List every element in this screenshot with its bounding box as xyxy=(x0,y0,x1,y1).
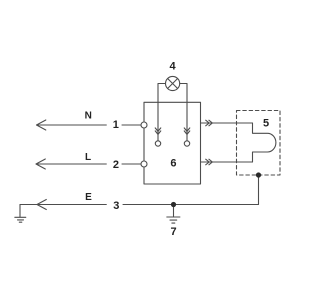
wire E line xyxy=(20,204,259,206)
svg-text:E: E xyxy=(85,192,92,203)
wire N line xyxy=(37,124,142,126)
junction dot at dashed box xyxy=(256,172,261,177)
svg-text:4: 4 xyxy=(169,61,176,73)
lamp wires xyxy=(158,84,187,141)
lamp X1 xyxy=(166,76,180,90)
dashed enclosure 5 xyxy=(237,111,281,176)
wire L line xyxy=(36,163,141,165)
svg-text:N: N xyxy=(85,111,92,122)
terminal 2 circle xyxy=(141,161,147,167)
svg-text:2: 2 xyxy=(113,159,119,171)
enclosure box 6 xyxy=(144,102,201,184)
junction dot at ground 7 xyxy=(171,202,176,207)
ground 7 xyxy=(167,205,180,224)
svg-text:3: 3 xyxy=(113,200,119,212)
actuator arrow left xyxy=(155,128,161,134)
actuator arrow right xyxy=(184,128,190,134)
arrow head L xyxy=(36,159,45,169)
wire box to element bottom xyxy=(201,161,253,163)
arrow head N xyxy=(37,120,46,130)
svg-text:L: L xyxy=(85,152,91,163)
terminal 1 circle xyxy=(141,122,147,128)
arrow head E xyxy=(37,200,46,210)
chevrons bottom xyxy=(206,159,213,165)
svg-text:7: 7 xyxy=(170,226,176,238)
svg-text:1: 1 xyxy=(113,119,119,131)
svg-text:5: 5 xyxy=(263,117,269,129)
wire box to element top xyxy=(201,122,253,124)
wire from dashed box to E line xyxy=(258,175,260,205)
contact circle right xyxy=(184,141,189,146)
heating element 5 outline xyxy=(253,123,276,162)
svg-text:6: 6 xyxy=(170,158,176,170)
contact circle left xyxy=(155,141,160,146)
chevrons top xyxy=(206,120,213,126)
ground left xyxy=(15,205,26,223)
